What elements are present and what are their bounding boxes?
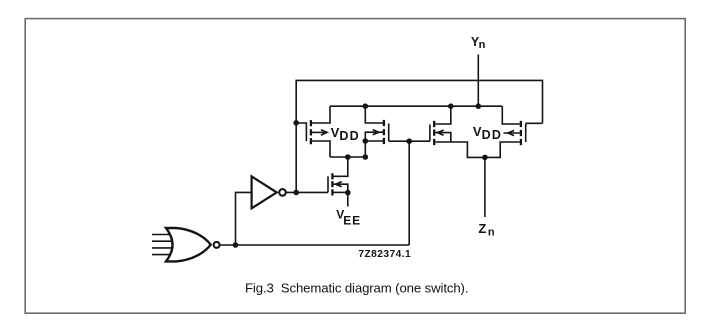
wire: inverter input riser: [236, 192, 252, 245]
transistor T1 (p-channel MOSFET, left): [296, 106, 330, 157]
svg-text:DD: DD: [339, 129, 359, 143]
junction: gate node to NOR output: [406, 138, 412, 144]
junction: NOR output node: [233, 242, 239, 248]
label Yn: [471, 35, 486, 51]
wire: gate node down to NOR output line: [408, 141, 410, 245]
wire: inverter output to T5 gate: [286, 191, 328, 193]
wire: Zn lead: [484, 157, 486, 217]
svg-text:n: n: [479, 39, 486, 51]
wire: NOR output to inverter input and gate-node column: [220, 244, 410, 246]
svg-text:Z: Z: [478, 221, 486, 236]
label: drawing number 7Z82374.1: [358, 249, 411, 260]
transistor T5 (n-channel MOSFET at inverter output): [328, 157, 348, 196]
svg-text:V: V: [473, 124, 482, 139]
junction: T3 drain on top rail: [448, 103, 454, 109]
label VDD (right): [473, 124, 502, 142]
wire: T2 gate to T3 gate node: [389, 140, 430, 142]
junction: Zn tap: [482, 155, 488, 161]
svg-text:n: n: [488, 226, 495, 238]
inverter U2 (triangle buffer with bubble): [252, 176, 286, 208]
junction: Yn tap on top rail: [476, 103, 482, 109]
junction: T5 source/bulk tie at VEE: [345, 190, 351, 196]
wire: VDD top rail joining T1,T2,T3,T4 drains and Yn: [330, 105, 502, 107]
junction: T1 gate tap on left vertical: [293, 120, 299, 126]
junction: T5 drain on bottom rail: [345, 154, 351, 160]
junction: inverter output node: [293, 190, 299, 196]
transistor T3 (n-channel MOSFET): [430, 106, 451, 145]
label Zn: [478, 221, 495, 238]
label VDD (left): [331, 125, 360, 143]
junction: T2 source column on bottom rail: [363, 154, 369, 160]
wire: Yn lead: [477, 55, 479, 107]
junction: T2 source/bulk tie: [363, 138, 369, 144]
svg-text:7Z82374.1: 7Z82374.1: [358, 249, 411, 260]
svg-text:V: V: [331, 125, 340, 140]
svg-text:Fig.3 Schematic diagram (one: Fig.3 Schematic diagram (one switch).: [245, 281, 468, 296]
wire: bottom rail joining T1 source, T5 drain, T2 source: [330, 156, 365, 158]
NOR gate U1 input stubs: [152, 235, 175, 255]
wire: T3 source / T4 source to Zn tap: [435, 142, 520, 157]
junction: T2 drain on top rail: [363, 103, 369, 109]
wire: inverter output up left side, across top, down right side to T4 gate (outer loop): [296, 80, 542, 192]
transistor T2 (n-channel MOSFET, gate on right): [365, 106, 388, 157]
transistor T4 (p-channel MOSFET, gate on right, mirrored): [502, 106, 542, 145]
caption: Fig.3 Schematic diagram (one switch).: [245, 281, 468, 296]
label VEE: [336, 207, 361, 227]
wire: VEE lead: [347, 193, 349, 207]
svg-text:EE: EE: [343, 214, 361, 228]
svg-text:DD: DD: [482, 128, 502, 142]
NOR gate U1 body: [166, 228, 220, 261]
